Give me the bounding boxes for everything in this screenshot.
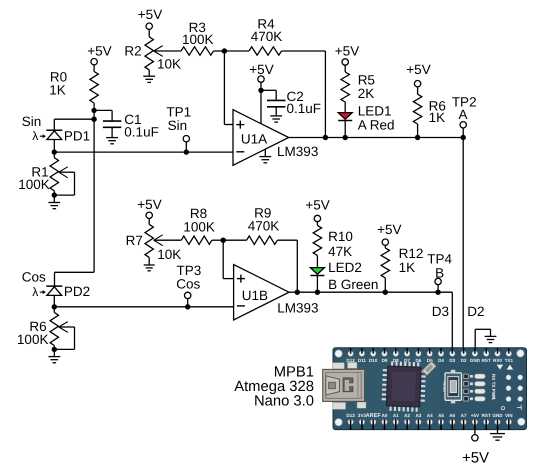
resistor R8 — [181, 206, 223, 244]
svg-text:Cos: Cos — [176, 277, 200, 292]
+5V supply (R7) — [137, 197, 161, 224]
svg-text:+5V: +5V — [471, 413, 480, 418]
svg-text:D3: D3 — [432, 304, 449, 319]
photodiode PD1 — [22, 114, 90, 152]
Arduino Nano module MPB1 — [333, 348, 527, 430]
svg-text:+5V: +5V — [335, 43, 359, 58]
wire PD1 top — [54, 119, 94, 130]
ground (Nano top) — [485, 336, 497, 342]
svg-text:100K: 100K — [18, 177, 50, 192]
svg-text:+5V: +5V — [138, 7, 162, 22]
op-amp U1A — [233, 110, 318, 166]
svg-text:TP4: TP4 — [427, 251, 452, 266]
wire A to Nano D2 — [462, 138, 464, 354]
svg-text:A3: A3 — [415, 413, 421, 418]
svg-text:+5V: +5V — [305, 197, 329, 212]
+5V supply (R0) — [87, 44, 111, 72]
node R3/R4 — [222, 48, 227, 53]
photodiode PD2 — [22, 270, 90, 307]
ground (R2) — [143, 76, 155, 82]
svg-text:D2: D2 — [467, 304, 484, 319]
svg-text:A4: A4 — [427, 413, 433, 418]
svg-text:D4: D4 — [438, 358, 444, 363]
svg-text:+5V: +5V — [137, 197, 161, 212]
svg-text:VIN: VIN — [505, 413, 513, 418]
wire Cos bus — [54, 306, 233, 308]
+5V supply (R2) — [138, 7, 162, 37]
resistor R3 — [181, 20, 224, 55]
svg-text:λ: λ — [32, 129, 38, 143]
wire B bus — [289, 290, 452, 354]
svg-text:LED2: LED2 — [328, 260, 362, 275]
svg-text:B Green: B Green — [328, 277, 378, 292]
svg-text:A Red: A Red — [358, 117, 395, 132]
resistor R5 — [341, 72, 375, 113]
svg-text:+5V: +5V — [87, 44, 111, 59]
svg-text:TX: TX — [491, 382, 496, 389]
svg-text:100K: 100K — [183, 219, 215, 234]
svg-text:0.1uF: 0.1uF — [287, 101, 322, 116]
svg-text:R2: R2 — [124, 44, 141, 59]
label MPB1 module — [234, 365, 314, 410]
ground (R1) — [48, 203, 60, 209]
svg-text:GND: GND — [470, 358, 481, 363]
svg-text:U1B: U1B — [242, 288, 268, 303]
svg-text:GND: GND — [492, 413, 503, 418]
+5V terminal (Nano) — [462, 430, 489, 467]
resistor R0 — [49, 69, 98, 110]
svg-text:0.1uF: 0.1uF — [124, 124, 159, 139]
svg-text:2K: 2K — [358, 86, 375, 101]
svg-text:RST: RST — [482, 358, 491, 363]
svg-text:A2: A2 — [404, 413, 410, 418]
ground (Nano bottom) — [490, 430, 505, 440]
ground (C2) — [270, 116, 282, 122]
LED LED2 (green) — [310, 260, 378, 295]
capacitor C2 — [261, 89, 321, 116]
svg-text:+5V: +5V — [249, 62, 273, 77]
svg-text:470K: 470K — [248, 218, 280, 233]
LED LED1 (red) — [338, 103, 394, 140]
test point TP3 — [176, 263, 201, 309]
svg-text:+5V: +5V — [462, 450, 489, 467]
node R0/C1 — [91, 108, 96, 122]
potentiometer R6 (100K) — [17, 307, 75, 357]
resistor R12 — [381, 246, 423, 295]
+5V supply (R10) — [305, 197, 329, 225]
svg-text:AREF: AREF — [366, 413, 382, 419]
svg-text:A: A — [458, 107, 467, 122]
wire to U1A + input — [224, 51, 233, 125]
op-amp U1B — [234, 265, 319, 321]
svg-text:λ: λ — [32, 285, 38, 299]
svg-text:A1: A1 — [393, 413, 399, 418]
svg-text:A7: A7 — [461, 413, 467, 418]
svg-text:LM393: LM393 — [277, 301, 318, 316]
resistor R4 — [224, 16, 325, 137]
svg-text:LED1: LED1 — [358, 103, 392, 118]
svg-text:D9: D9 — [382, 358, 388, 363]
svg-text:470K: 470K — [251, 29, 283, 44]
svg-text:R10: R10 — [328, 229, 353, 244]
svg-text:10K: 10K — [157, 57, 181, 72]
+5V supply (U1A) — [249, 62, 273, 124]
svg-text:+5V: +5V — [406, 62, 430, 77]
wire R0 node to PD2 — [55, 119, 95, 286]
svg-text:1K: 1K — [49, 82, 66, 97]
svg-text:D11: D11 — [358, 358, 367, 363]
resistor R6 (1K) — [413, 94, 445, 140]
svg-text:A5: A5 — [438, 413, 444, 418]
svg-text:Cos: Cos — [22, 270, 46, 285]
svg-text:D3: D3 — [449, 358, 455, 363]
svg-text:RST: RST — [482, 413, 491, 418]
svg-text:LM393: LM393 — [277, 144, 318, 159]
svg-text:Sin: Sin — [22, 114, 42, 129]
test point TP1 — [166, 105, 191, 155]
node R8/R9 — [221, 238, 226, 243]
svg-text:47K: 47K — [328, 244, 352, 259]
svg-text:D10: D10 — [369, 358, 378, 363]
node PD2/R6/Cos — [52, 304, 57, 309]
svg-text:+5V: +5V — [377, 222, 401, 237]
node PD1/R1/Sin — [52, 149, 57, 154]
wire to U1B + input — [223, 240, 233, 278]
svg-text:R12: R12 — [399, 246, 424, 261]
svg-text:100K: 100K — [17, 332, 49, 347]
resistor R10 — [313, 225, 353, 267]
svg-text:R7: R7 — [126, 233, 143, 248]
svg-text:D2: D2 — [461, 358, 467, 363]
svg-text:PD1: PD1 — [64, 128, 90, 143]
svg-text:1K: 1K — [429, 110, 446, 125]
+5V supply (R5) — [335, 43, 359, 72]
svg-text:RX: RX — [491, 374, 496, 381]
ground (C1) — [106, 138, 118, 144]
svg-text:RX0: RX0 — [493, 358, 502, 363]
svg-text:L: L — [491, 398, 496, 401]
test point TP4 / node B — [427, 251, 452, 295]
resistor R9 — [223, 206, 297, 293]
potentiometer R2 — [124, 37, 181, 76]
+5V supply (R12) — [377, 222, 401, 248]
potentiometer R7 — [126, 224, 182, 265]
svg-text:A0: A0 — [382, 413, 388, 418]
+5V supply (R6 1K) — [406, 62, 430, 94]
ground (U1A) — [259, 150, 271, 163]
wire A bus — [289, 135, 464, 140]
ground (R6 100K) — [48, 357, 60, 363]
svg-text:A6: A6 — [449, 413, 455, 418]
wire Sin bus — [54, 151, 233, 153]
svg-text:Sin: Sin — [168, 118, 188, 133]
svg-text:Nano 3.0: Nano 3.0 — [254, 394, 314, 410]
svg-text:PD2: PD2 — [64, 284, 90, 299]
svg-text:10K: 10K — [157, 247, 181, 262]
svg-text:RESET: RESET — [442, 382, 446, 393]
svg-text:D13: D13 — [346, 413, 355, 418]
svg-text:100K: 100K — [182, 32, 214, 47]
ground (R7) — [144, 265, 155, 271]
svg-text:1K: 1K — [399, 260, 416, 275]
svg-text:U1A: U1A — [241, 132, 267, 147]
capacitor C1 — [94, 110, 159, 139]
svg-text:TX1: TX1 — [505, 358, 514, 363]
wire Nano GND pin — [475, 329, 490, 353]
test point TP2 / node A — [452, 95, 477, 141]
potentiometer R1 — [18, 152, 74, 202]
